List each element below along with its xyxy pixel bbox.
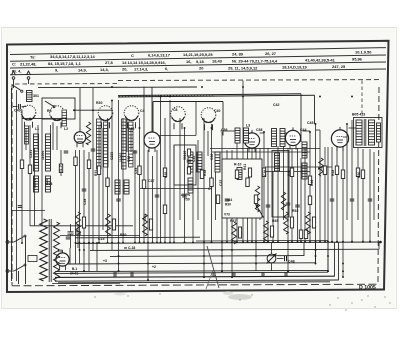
wire	[346, 124, 348, 220]
output transformer winding 2	[369, 120, 375, 145]
svg-text:C: C	[131, 53, 134, 58]
svg-text:11004: 11004	[41, 151, 45, 160]
coil L2b	[62, 110, 67, 126]
wire	[267, 148, 269, 243]
capacitor C25	[225, 198, 230, 200]
coil small L7	[34, 176, 39, 192]
speaker coil	[377, 123, 381, 142]
svg-text:C15: C15	[98, 237, 104, 241]
wire	[342, 147, 344, 277]
choke L33	[232, 222, 237, 244]
wire	[56, 126, 58, 150]
svg-text:R40: R40	[120, 233, 126, 237]
connector wire	[260, 132, 264, 134]
table line 4	[10, 69, 386, 75]
resistor R11	[187, 149, 190, 156]
resistor R48	[28, 165, 31, 174]
svg-text:27,8: 27,8	[105, 60, 113, 65]
wire	[134, 150, 136, 243]
wire	[263, 132, 265, 243]
svg-text:Nr. 29-44 79,21,7-75,14,4: Nr. 29-44 79,21,7-75,14,4	[232, 58, 278, 63]
AVC bus wire	[38, 86, 197, 89]
connector wire	[343, 136, 347, 138]
zigzag resistor in box	[255, 186, 259, 212]
resistor R60	[82, 217, 85, 228]
tuning capacitor C6	[201, 108, 216, 123]
capacitor C28	[295, 204, 300, 206]
zigzag resistor right	[319, 158, 323, 176]
antenna arrow Y	[12, 71, 16, 75]
svg-text:R31: R31	[94, 170, 98, 176]
wire bus mid	[210, 148, 320, 150]
wire	[369, 149, 371, 243]
scan speckles	[337, 297, 338, 298]
svg-text:C44: C44	[300, 128, 306, 132]
wire	[122, 118, 124, 243]
oscillator section box	[153, 101, 223, 103]
main HT rail	[75, 242, 381, 243]
dashed chassis outline left	[11, 84, 13, 286]
bus 256	[110, 255, 304, 258]
svg-text:+2: +2	[152, 265, 156, 269]
wire	[283, 146, 285, 220]
dashed chassis outline bottom	[12, 284, 378, 286]
svg-text:41,40,42,38,5-41: 41,40,42,38,5-41	[305, 57, 336, 62]
table line 2	[10, 55, 386, 61]
svg-text:V73: V73	[224, 213, 230, 217]
wire	[247, 148, 249, 243]
svg-text:C39: C39	[263, 170, 267, 176]
choke L31	[106, 214, 111, 236]
coil L24	[244, 128, 249, 143]
wire	[179, 118, 181, 220]
svg-text:24, 89: 24, 89	[232, 51, 244, 56]
svg-text:Ts:: Ts:	[30, 54, 36, 59]
detector diode arrow	[256, 204, 264, 218]
svg-text:B05 423: B05 423	[352, 113, 365, 117]
capacitor C33	[133, 150, 138, 152]
resistor R53	[308, 196, 311, 205]
resistor R65	[290, 217, 293, 228]
wire	[75, 150, 77, 243]
coil small L8	[46, 176, 51, 192]
resistor R45	[341, 170, 344, 179]
svg-text:C45: C45	[307, 121, 313, 125]
capacitor C27	[286, 202, 291, 204]
bus 281	[55, 280, 339, 281]
wire	[309, 132, 311, 243]
choke L30	[76, 212, 81, 234]
resistor R34	[138, 166, 141, 175]
resistor R57	[361, 170, 364, 179]
svg-text:C4: C4	[140, 109, 145, 113]
svg-text:D 1005: D 1005	[359, 285, 376, 291]
switch contact a	[45, 101, 53, 106]
wire	[272, 171, 274, 243]
coupling unit box	[272, 151, 289, 218]
svg-text:14,9,: 14,9,	[78, 67, 87, 72]
wire	[102, 128, 104, 230]
wire	[74, 109, 112, 111]
dashed link antenna	[15, 83, 118, 85]
capacitor C32	[91, 148, 96, 150]
resistor R54	[299, 230, 302, 239]
svg-text:R-10: R-10	[234, 163, 241, 167]
svg-text:11-0: 11-0	[59, 165, 63, 172]
wire	[327, 147, 329, 271]
svg-text:R46: R46	[310, 180, 314, 186]
connector wire	[316, 129, 321, 131]
oscillator coil L9b	[104, 122, 109, 167]
svg-text:L5: L5	[58, 249, 62, 253]
svg-text:R30: R30	[225, 203, 231, 207]
wire	[139, 118, 141, 243]
resistor R33	[106, 178, 109, 187]
winding bar R22	[302, 163, 307, 179]
svg-text:R7: R7	[318, 167, 323, 171]
band switch box	[42, 98, 75, 119]
tube V5 output	[331, 130, 348, 147]
IF coil L13	[188, 152, 193, 172]
wire	[287, 148, 289, 271]
mains terminal 1	[6, 241, 9, 244]
svg-text:C49: C49	[14, 109, 21, 113]
wire	[291, 148, 293, 243]
wire	[304, 148, 306, 243]
svg-text:6,14,6,13,17: 6,14,6,13,17	[148, 53, 171, 58]
coil L17	[224, 178, 229, 193]
rectifier anode wires	[69, 248, 71, 264]
capacitor C48	[284, 256, 286, 262]
wire	[22, 118, 66, 120]
mains switch arm 2	[14, 266, 24, 272]
svg-text:18,14,D,19,19: 18,14,D,19,19	[282, 65, 308, 70]
stray scratch mark	[207, 246, 219, 288]
coil L1b	[25, 126, 29, 144]
resistor R37	[200, 170, 203, 179]
wire	[373, 152, 375, 220]
svg-text:+3: +3	[103, 259, 107, 263]
capacitor C26	[266, 204, 271, 206]
resistor R36	[163, 168, 166, 177]
bus 282	[58, 282, 330, 283]
capacitor C20	[64, 150, 69, 152]
wire	[79, 150, 81, 264]
rectifier tube V6	[56, 253, 69, 266]
svg-text:R35: R35	[164, 172, 168, 178]
wire	[357, 148, 359, 220]
svg-text:9,18: 9,18	[196, 59, 204, 64]
aerial terminal A	[28, 79, 30, 84]
resistor R32	[97, 166, 100, 175]
capacitor C49	[18, 104, 20, 109]
bus caps row	[113, 272, 115, 277]
wire	[351, 120, 353, 243]
dashed chassis outline top	[118, 79, 379, 82]
svg-text:R38: R38	[203, 170, 207, 176]
bus 241	[196, 239, 328, 242]
aerial arrow A	[27, 71, 31, 75]
svg-text:95,96: 95,96	[352, 57, 363, 62]
resistor R63	[238, 227, 241, 238]
wire	[242, 81, 244, 244]
resistor R62	[149, 219, 152, 230]
resistor R42	[290, 168, 293, 177]
bus 271b	[55, 272, 328, 273]
power transformer secondary HT	[54, 222, 60, 281]
svg-text:C38: C38	[256, 128, 262, 132]
wire	[169, 100, 171, 243]
page right edge shadow	[396, 27, 398, 309]
svg-text:C32: C32	[127, 156, 131, 162]
bus right drop 3	[327, 243, 329, 271]
HT bus drop 2	[314, 95, 316, 124]
wire	[143, 87, 145, 244]
svg-text:L2: L2	[64, 127, 68, 131]
coil L12	[124, 180, 129, 194]
bus right drop 1	[303, 243, 305, 256]
page top edge shadow	[1, 27, 397, 29]
wire	[211, 124, 213, 243]
svg-text:C40: C40	[214, 109, 220, 113]
svg-text:29, 11, 14,5,9,12: 29, 11, 14,5,9,12	[228, 65, 258, 70]
svg-text:C37: C37	[219, 180, 223, 186]
svg-text:9,: 9,	[55, 68, 58, 73]
resistor R56	[335, 166, 338, 175]
stray scratch mark 2	[206, 270, 213, 289]
rail end dot	[379, 241, 382, 244]
winding bar in box	[237, 168, 242, 180]
svg-text:C:: C:	[12, 61, 16, 66]
resistor R31	[87, 160, 90, 169]
resistor R43	[308, 176, 311, 185]
tuning capacitor C3	[98, 106, 113, 121]
power transformer core	[48, 219, 50, 282]
svg-text:m C-18: m C-18	[124, 246, 135, 250]
wire	[192, 172, 194, 243]
wire	[126, 118, 128, 152]
capacitor C11	[187, 159, 192, 161]
wire	[50, 125, 52, 150]
wire	[184, 128, 186, 243]
svg-text:14,3,: 14,3,	[100, 67, 109, 72]
svg-text:26, 27: 26, 27	[265, 51, 277, 56]
wire	[203, 118, 205, 277]
wire	[111, 100, 113, 250]
wire	[236, 143, 238, 243]
wire	[300, 158, 302, 243]
wire	[88, 243, 90, 271]
bus stub	[52, 282, 120, 284]
capacitor C31	[368, 198, 373, 200]
coil L15	[188, 178, 193, 193]
resistor R50	[163, 205, 166, 214]
fuse box	[28, 256, 37, 262]
winding bar R20	[275, 153, 280, 171]
svg-text:C32: C32	[128, 127, 134, 131]
svg-text:R30: R30	[96, 101, 102, 105]
wire	[130, 128, 132, 152]
mains switch arm 1	[14, 237, 24, 243]
choke L35	[284, 212, 289, 234]
bus right drop 2	[315, 243, 317, 263]
resistor R56	[248, 168, 251, 177]
resistor R40	[246, 178, 249, 187]
choke L36	[306, 212, 311, 234]
wire	[30, 225, 133, 227]
coil L30	[27, 91, 33, 102]
mains wire 2	[18, 271, 20, 284]
wire	[88, 152, 90, 243]
svg-text:C35: C35	[192, 156, 196, 162]
svg-text:C33: C33	[134, 168, 138, 174]
resistor R39	[235, 170, 238, 179]
winding bar R21	[302, 142, 307, 158]
wire	[315, 124, 317, 264]
capacitor C22	[116, 198, 121, 200]
svg-text:C17: C17	[148, 179, 154, 183]
connector wire	[303, 130, 310, 132]
bus right drop 4	[334, 243, 336, 277]
svg-text:247, 25: 247, 25	[332, 64, 346, 69]
detector unit box	[222, 159, 262, 218]
wire	[255, 148, 257, 271]
oscillator coil L9a	[97, 119, 102, 169]
svg-text:R47: R47	[230, 219, 236, 223]
wire	[34, 148, 36, 226]
power transformer primary	[40, 219, 48, 281]
svg-text:C7: C7	[208, 187, 213, 191]
tube V1	[74, 132, 86, 144]
resistor R52	[254, 195, 257, 204]
pot wire	[271, 243, 273, 254]
svg-text:16,: 16,	[186, 59, 191, 64]
stub wire to V2	[151, 87, 153, 129]
connector wire	[349, 127, 356, 129]
svg-text:C8: C8	[173, 108, 178, 112]
IF coil L16	[215, 152, 220, 172]
wire	[107, 118, 109, 243]
connector wire	[221, 130, 236, 132]
tuning capacitor C2	[50, 106, 65, 121]
svg-text:C36: C36	[210, 154, 214, 160]
wire	[52, 128, 54, 150]
wire	[156, 150, 158, 243]
zigzag resistor R33	[86, 122, 90, 145]
capacitor C21	[82, 188, 87, 190]
wire	[29, 125, 31, 226]
resistor R46	[356, 168, 359, 177]
wire	[25, 128, 27, 150]
wire	[92, 88, 94, 250]
page bottom edge shadow	[1, 308, 397, 310]
tuning capacitor C4	[124, 106, 139, 121]
mains wire 1	[25, 236, 27, 284]
IF transformer winding L19	[280, 129, 285, 147]
wire	[226, 150, 228, 243]
svg-text:301: 301	[33, 94, 39, 98]
wire	[173, 145, 175, 243]
svg-text:18,43: 18,43	[212, 59, 223, 64]
coil L11	[115, 180, 120, 194]
drawing border frame	[7, 41, 389, 292]
mains terminal 2	[6, 270, 9, 273]
svg-text:84, 15,15,7,18, 1,1: 84, 15,15,7,18, 1,1	[48, 61, 82, 66]
capacitor C30	[350, 198, 355, 200]
resistor R38	[210, 178, 213, 187]
HT bus drop 1	[300, 94, 302, 142]
svg-text:C24: C24	[45, 179, 49, 185]
tuning capacitor C5	[171, 107, 186, 122]
oscillator coil L10b	[129, 122, 134, 167]
wire	[221, 132, 223, 271]
svg-text:C28: C28	[83, 199, 87, 205]
svg-text:11002: 11002	[119, 153, 123, 162]
svg-text:10.1.9.50: 10.1.9.50	[355, 50, 372, 55]
tube V2	[144, 132, 160, 148]
zigzag in coupling box	[281, 192, 285, 210]
resistor R55	[304, 230, 307, 239]
tuning capacitor C1	[21, 105, 36, 120]
IF coil L14	[197, 152, 202, 172]
wire	[331, 147, 333, 243]
svg-text:R52: R52	[292, 209, 298, 213]
resistor R35	[142, 180, 145, 189]
page left edge shadow	[1, 27, 3, 309]
table line 3	[10, 62, 386, 68]
wire	[336, 147, 338, 243]
output transformer core	[363, 119, 365, 146]
wire	[21, 110, 23, 243]
svg-text:C231: C231	[29, 150, 33, 158]
wire	[215, 172, 217, 220]
svg-text:30119: 30119	[183, 151, 187, 160]
tube V3	[244, 133, 259, 148]
capacitor C24	[182, 194, 187, 196]
wire	[118, 100, 120, 271]
choke L32	[143, 214, 148, 236]
wire	[362, 149, 364, 243]
IF coil L5	[34, 134, 39, 171]
dashed drop to output transformer	[361, 81, 363, 118]
capacitor C34	[66, 236, 71, 238]
bus 271a	[55, 270, 328, 271]
output transformer frame	[354, 118, 383, 148]
svg-text:6,: 6,	[165, 66, 168, 71]
wire	[197, 140, 199, 220]
resistor R44	[323, 166, 326, 175]
svg-text:R49: R49	[272, 219, 278, 223]
svg-text:20,: 20,	[122, 67, 127, 72]
wire	[160, 97, 162, 243]
wire	[41, 119, 43, 226]
volume potentiometer	[267, 254, 276, 263]
wire left main vertical	[11, 88, 13, 281]
stub wire to V1	[79, 88, 81, 130]
wire	[83, 150, 85, 271]
HT bus hatching	[119, 96, 120, 97]
svg-text:21,22,48,: 21,22,48,	[20, 61, 36, 66]
wire	[164, 118, 166, 243]
wire	[259, 148, 261, 220]
wire	[96, 243, 98, 271]
wire	[98, 125, 100, 243]
svg-text:14 14,14 15,14,28,9,916,: 14 14,14 15,14,28,9,916,	[122, 60, 166, 65]
table line 1	[10, 48, 386, 55]
svg-text:R48: R48	[331, 170, 335, 176]
wire	[319, 130, 321, 243]
coil L23	[235, 128, 240, 143]
